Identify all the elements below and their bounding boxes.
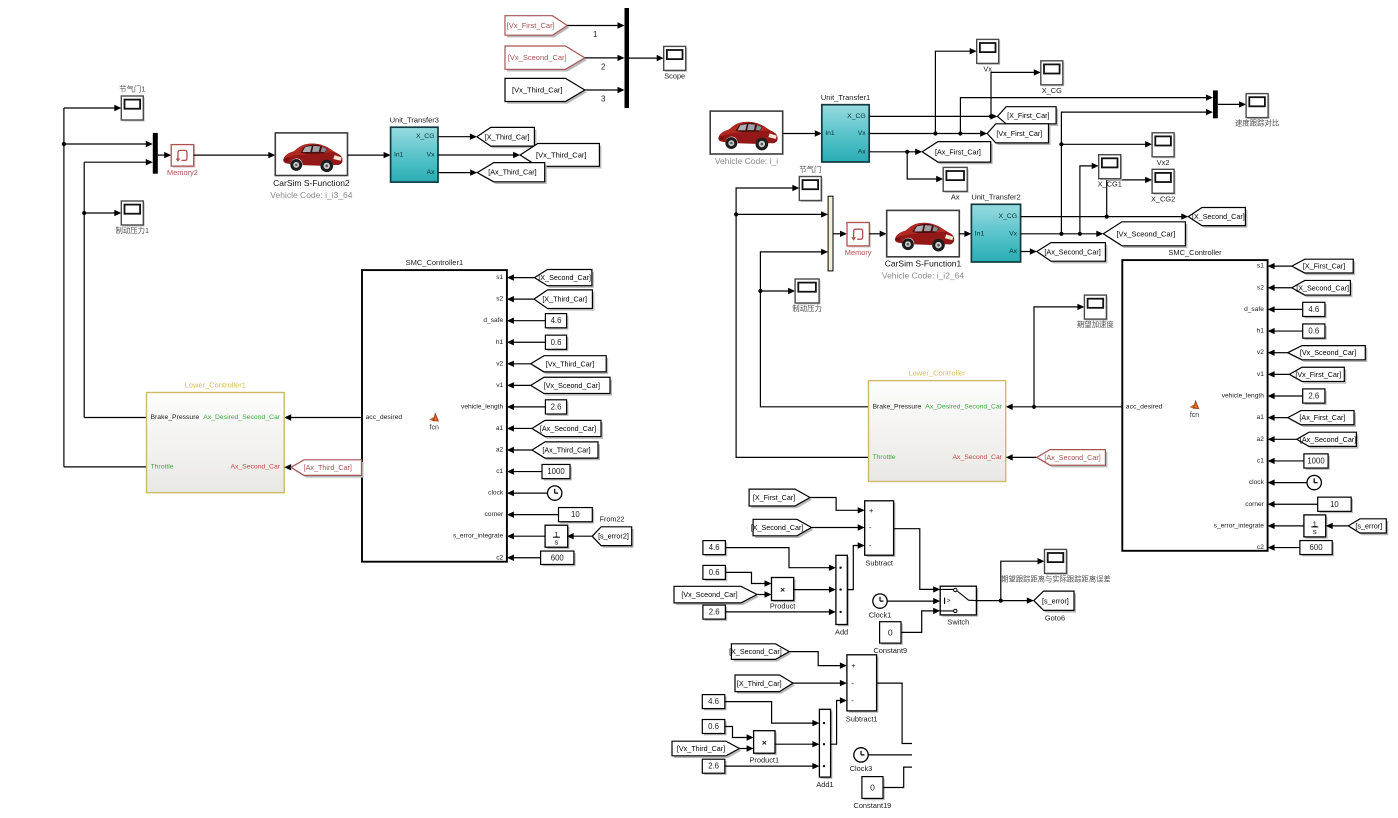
tag From Vx_Sceond_Car red [505,46,587,72]
tag From X_Third_Car s2 [534,290,594,311]
svg-text:600: 600 [1310,543,1324,552]
wire to scope 制动压力 [760,288,795,294]
wire SMC1 c1 in [507,468,542,474]
svg-text:Ax_Desired_Second_Car: Ax_Desired_Second_Car [925,403,1002,410]
wire Memory to CarSim1 [869,231,886,237]
wire Vx_Second to mux3 [1059,109,1213,234]
svg-text:c1: c1 [1257,457,1264,464]
scope Vx [977,39,1001,73]
wire Switch to Goto6 [976,597,1033,603]
mux Mux4 cream [828,196,833,271]
wire X_Second to Subtract [812,524,865,530]
svg-text:3: 3 [601,95,606,104]
tag From Vx_Sceond_Car v2 [1288,346,1368,362]
svg-text:Ax_Desired_Second_Car: Ax_Desired_Second_Car [203,414,280,421]
svg-text:0: 0 [888,627,893,637]
fcn MATLAB icon SMC1 fcn [429,412,439,431]
svg-text:600: 600 [551,553,565,562]
wire SMC a2 in [1268,436,1297,442]
wire Vx_Sceond to mux2 [585,55,625,61]
clock Clock SMC right [1307,475,1321,489]
svg-text:>: > [947,597,951,604]
block SMC_Controller1 [362,258,507,562]
svg-text:c1: c1 [496,468,503,475]
wire UT3 Vx out [438,152,520,158]
svg-text:[X_Second_Car]: [X_Second_Car] [729,647,782,656]
svg-text:a1: a1 [496,425,504,432]
svg-text:SMC_Controller1: SMC_Controller1 [406,258,464,267]
wire SMC1 s1 in [507,274,535,280]
svg-text:X_CG: X_CG [1042,86,1062,95]
tag From X_First_Car btm [749,489,812,508]
block Lower_Controller [869,369,1006,482]
svg-text:v2: v2 [1257,349,1264,356]
scope 速度跟踪对比 [1235,94,1279,128]
constant Constant9 [880,622,903,645]
wire SMC1 v2 in [507,361,531,367]
svg-text:Memory: Memory [845,248,872,257]
wire acc_desired to Lower [1006,404,1123,410]
svg-text:s2: s2 [1257,284,1264,291]
constant vehicle_length 2.6 [545,400,568,416]
svg-text:1: 1 [593,30,598,39]
tag From Ax_Second_Car a1 [532,420,603,438]
wire mux1 to Memory2 [158,152,171,158]
svg-text:Switch: Switch [947,618,969,627]
constant c1 1000 r [1304,454,1330,470]
svg-text:Product: Product [770,602,795,611]
constant c2 600 [541,551,576,566]
svg-text:×: × [762,738,767,748]
svg-text:[Ax_First_Car]: [Ax_First_Car] [1299,413,1345,422]
svg-text:Subtract1: Subtract1 [846,715,878,724]
svg-text:[Ax_Third_Car]: [Ax_Third_Car] [304,463,352,472]
tag From X_Second_Car s1 [535,270,594,288]
svg-text:[Ax_Second_Car]: [Ax_Second_Car] [1300,435,1356,444]
block Lower_Controller1 [147,381,285,493]
svg-text:Vehicle Code: i_i: Vehicle Code: i_i [715,156,778,166]
svg-text:[Vx_Sceond_Car]: [Vx_Sceond_Car] [681,590,737,599]
svg-text:Ax: Ax [951,192,960,201]
tag Goto Ax_Second_Car right [1037,243,1108,264]
svg-text:Vehicle Code: i_i3_64: Vehicle Code: i_i3_64 [270,190,353,200]
tag Goto Vx_Sceond_Car right [1103,222,1187,248]
svg-text:h1: h1 [496,339,504,346]
scope 制动压力 [792,279,822,313]
svg-text:节气门: 节气门 [799,165,821,174]
mux Mux2 scope [625,8,630,108]
svg-text:[Vx_Sceond_Car]: [Vx_Sceond_Car] [508,53,567,62]
wire X_Third to Subtract1 [793,680,847,686]
svg-text:v2: v2 [496,360,503,367]
wire SMC1 vehicle_length in [507,404,546,410]
svg-text:Memory2: Memory2 [167,168,198,177]
wire SMC v1 in [1268,371,1290,377]
constant 2.6 btm2 [702,759,726,775]
svg-text:Vx: Vx [983,64,992,73]
svg-text:Clock3: Clock3 [850,764,873,773]
tag Goto X_First_Car [998,107,1059,126]
tag From Vx_Sceond_Car v1 [531,377,612,395]
block Unit_Transfer3 [390,116,439,183]
svg-text:[Vx_Third_Car]: [Vx_Third_Car] [546,359,594,368]
wire mux3 to speed scope [1218,101,1246,107]
svg-text:节气门1: 节气门1 [119,85,145,94]
constant 4.6 btm2 [702,695,726,711]
svg-text:X_CG: X_CG [416,133,435,140]
constant h1 0.6 [545,335,568,351]
tag From X_Third_Car btm [735,675,795,694]
wire SMC1 s2 in [507,296,534,302]
svg-text:Throttle: Throttle [151,463,174,470]
tag From Vx_Third_Car btm [672,741,741,758]
svg-text:v1: v1 [1257,371,1264,378]
fcn MATLAB icon SMC fcn [1190,400,1200,419]
wire UT3 X_CG out [438,134,477,140]
svg-text:Unit_Transfer3: Unit_Transfer3 [390,116,439,125]
wire SMC d_safe in [1268,306,1303,312]
block Add1 [816,709,833,789]
wire Subtract1 out stub [877,683,912,743]
svg-text:c2: c2 [1257,544,1264,551]
svg-text:[Vx_Sceond_Car]: [Vx_Sceond_Car] [1116,229,1175,238]
wire X_Second to Subtract1 [789,652,847,669]
svg-text:[Vx_Third_Car]: [Vx_Third_Car] [677,744,725,753]
wire to mux1 in2 [84,159,153,165]
constant h1 0.6 r [1303,324,1327,340]
wire Vx_First to mux2 [567,22,624,28]
block CarSim S-Function1 [882,210,965,280]
block vehicle car i_i [710,111,783,166]
svg-text:clock: clock [1249,479,1265,486]
wire SMC c1 in [1268,458,1304,464]
clock Clock1 [869,594,892,619]
wire AxThird to Lower1 [284,464,291,470]
block Subtract [865,501,896,568]
svg-text:s2: s2 [496,296,503,303]
wire acc_desired to Lower1 [284,414,362,420]
wire SMC s_error_integrate in [1268,523,1304,529]
tag From s_error2 [592,527,634,548]
wire SMC1 v1 in [507,382,531,388]
svg-text:[s_error]: [s_error] [1355,521,1382,530]
svg-text:SMC_Controller: SMC_Controller [1168,248,1222,257]
wire UT1 X_CG out [869,113,997,119]
svg-text:×: × [780,585,785,595]
wire mux4 to Memory [833,231,847,237]
clock Clock3 [850,748,873,773]
svg-text:Lower_Controller: Lower_Controller [908,369,966,378]
svg-text:Scope: Scope [664,71,685,80]
svg-text:10: 10 [1330,500,1339,509]
wire X_CG2 branch [1107,177,1152,217]
svg-text:Brake_Pressure: Brake_Pressure [873,403,922,410]
wire Clock3 out stub [868,754,912,756]
svg-text:X_CG: X_CG [998,213,1017,220]
svg-text:[Vx_First_Car]: [Vx_First_Car] [507,21,555,30]
svg-text:[Ax_Third_Car]: [Ax_Third_Car] [542,446,590,455]
wire s_error to integrator [1326,523,1349,529]
block Product [770,578,796,611]
block Add [835,555,849,636]
tag From X_Second_Car s2 [1292,280,1353,297]
wire Constant9 to Switch [901,608,940,633]
scope 期望加速度 [1077,295,1115,329]
tag From Ax_Second_Car red [1037,450,1108,468]
svg-text:d_safe: d_safe [483,317,503,324]
svg-text:0.6: 0.6 [708,722,719,731]
wire SMC1 h1 in [507,339,546,345]
svg-text:Constant19: Constant19 [853,801,891,810]
svg-text:fcn: fcn [430,425,439,432]
svg-text:s1: s1 [1257,263,1264,270]
scope 期望跟踪距离与实际跟踪距离误差 [1045,549,1069,575]
svg-text:In1: In1 [825,130,835,137]
svg-text:h1: h1 [1257,328,1265,335]
block Switch [940,586,978,626]
tag From Vx_Third_Car top [505,78,587,103]
wire Product1 to Add1 [775,741,819,747]
svg-text:[s_error]: [s_error] [1042,596,1069,605]
memory block Memory [845,223,872,257]
memory block Memory2 [167,145,198,178]
wire 4.6 to Add [725,548,836,571]
svg-text:0.6: 0.6 [709,568,720,577]
tag From X_Second_Car btm1 [751,519,814,538]
svg-text:Vx: Vx [1009,230,1018,237]
tag From X_Second_Car btm2 [729,644,791,662]
svg-text:[X_Second_Car]: [X_Second_Car] [1296,283,1349,292]
wire VxSceond to Product [757,591,772,597]
wire X_First to Subtract [810,498,865,514]
svg-text:s: s [1313,527,1317,536]
scope Vx2 [1152,133,1176,167]
svg-text:+: + [851,661,856,670]
wire Clock1 to Switch [887,598,940,604]
wire throttle trunk left [62,108,66,467]
block Subtract1 [846,655,879,724]
svg-text:[Ax_Second_Car]: [Ax_Second_Car] [1044,247,1100,256]
wire CarSim1 to UT2 [959,231,971,237]
wire VxThird to Product1 [739,745,753,751]
svg-text:[Ax_Second_Car]: [Ax_Second_Car] [540,424,596,433]
svg-text:0.6: 0.6 [551,338,562,347]
wire to mux4 in1 [736,211,828,217]
svg-text:期望加速度: 期望加速度 [1077,320,1115,329]
svg-text:Ax_Second_Car: Ax_Second_Car [953,454,1003,461]
wire CarSim2 to UT3 [348,152,391,158]
wire 4.6 to Add1 [725,702,820,727]
wire Product to Add [794,586,836,592]
svg-text:10: 10 [571,510,580,519]
wire Add to Subtract [847,542,864,589]
svg-text:s: s [555,537,559,546]
wire From22 to integrator [567,533,593,539]
wire SMC1 clock in [507,490,548,496]
block SMC_Controller [1122,248,1267,551]
tag Goto Ax_First_Car [922,142,993,165]
constant c1 1000 [542,464,572,480]
wire brake trunk left [82,162,86,417]
tag From Ax_Third_Car red [291,460,364,478]
wire to scope 节气门1 [64,105,121,111]
svg-text:[Vx_Third_Car]: [Vx_Third_Car] [512,85,562,94]
wire Subtract to Switch [894,529,941,593]
svg-text:s1: s1 [496,274,503,281]
svg-text:Add1: Add1 [816,780,833,789]
svg-text:s_error_integrate: s_error_integrate [1214,522,1265,529]
wire UT3 Ax out [438,169,477,175]
tag Goto Vx_Third_Car [520,144,601,169]
mux Mux1 [153,133,158,174]
svg-text:clock: clock [488,490,504,497]
tag Goto X_Second_Car right [1188,208,1247,228]
svg-text:From22: From22 [600,515,625,524]
svg-text:制动压力: 制动压力 [792,304,822,313]
svg-text:Lower_Controller1: Lower_Controller1 [185,381,246,390]
svg-text:[Vx_Sceond_Car]: [Vx_Sceond_Car] [544,381,600,390]
block Unit_Transfer1 [821,93,870,162]
clock Clock SMC1 [548,486,562,500]
integrator 1/s left [545,525,569,549]
wire Vx_Third to mux2 [585,87,625,93]
wire car i_i to UT1 [783,130,822,136]
wire Vx_First to mux3 [960,94,1213,133]
svg-text:Add: Add [835,628,848,637]
block Product1 [750,731,780,765]
svg-text:速度跟踪对比: 速度跟踪对比 [1235,119,1279,128]
svg-text:s_error_integrate: s_error_integrate [453,533,504,540]
svg-text:[Ax_First_Car]: [Ax_First_Car] [935,147,981,156]
wire 2.6 to Add [725,609,836,615]
svg-text:[X_Second_Car]: [X_Second_Car] [751,523,804,532]
wire Vx scope branch [935,48,976,134]
wire UT1 Ax out [869,149,922,155]
svg-text:c2: c2 [496,554,503,561]
tag From Ax_First_Car a1 [1288,411,1356,427]
wire UT2 Vx out [1021,231,1104,237]
svg-text:1000: 1000 [1307,456,1325,465]
svg-text:[s_error2]: [s_error2] [598,532,629,541]
wire AxSecond red to Lower [1006,454,1037,460]
scope Scope [664,46,688,80]
svg-text:a2: a2 [496,447,504,454]
tag From Ax_Second_Car a2 [1297,432,1359,448]
block Unit_Transfer2 [971,193,1020,263]
tag From Ax_Third_Car a2 [532,442,600,460]
svg-text:Constant9: Constant9 [873,646,907,655]
svg-text:Vx: Vx [427,152,436,159]
constant corner 10 [559,508,595,524]
wire 2.6 to Add1 [725,763,820,769]
svg-text:Ax: Ax [858,148,867,155]
svg-text:[X_Third_Car]: [X_Third_Car] [542,295,587,304]
wire SMC clock in [1268,479,1307,485]
tag From Vx_First_Car red [505,16,569,38]
scope Ax [943,167,969,201]
scope 节气门1 [119,85,145,122]
svg-text:CarSim S-Function1: CarSim S-Function1 [885,259,962,269]
constant 0.6 btm1 [703,565,727,581]
mux Mux3 speed compare [1213,90,1218,118]
svg-text:期望跟踪距离与实际跟踪距离误差: 期望跟踪距离与实际跟踪距离误差 [1001,575,1110,584]
wire SMC a1 in [1268,414,1288,420]
wire 0.6 to Product [725,572,771,586]
svg-text:[X_First_Car]: [X_First_Car] [1303,262,1345,271]
wire Throttle trunk right [734,185,869,458]
svg-text:corner: corner [1245,501,1264,508]
svg-text:CarSim S-Function2: CarSim S-Function2 [273,178,350,188]
svg-text:corner: corner [484,511,503,518]
svg-text:[X_Third_Car]: [X_Third_Car] [485,132,530,141]
svg-text:2.6: 2.6 [551,402,562,411]
wire SMC s2 in [1268,285,1292,291]
wire Vx2 branch [1061,141,1152,147]
svg-text:a1: a1 [1257,414,1265,421]
svg-text:4.6: 4.6 [709,543,720,552]
svg-text:acc_desired: acc_desired [1126,403,1163,410]
scope X_CG1 [1098,155,1123,189]
tag From Vx_First_Car v1 [1289,367,1346,383]
wire Constant19 out stub [883,767,912,787]
scope X_CG [1041,61,1065,95]
wire Brake trunk right [758,249,868,407]
wire SMC1 d_safe in [507,318,546,324]
svg-text:[Vx_Third_Car]: [Vx_Third_Car] [536,150,586,159]
svg-text:In1: In1 [975,230,985,237]
svg-text:0.6: 0.6 [1308,327,1319,336]
svg-text:制动压力1: 制动压力1 [115,226,149,235]
svg-text:+: + [869,506,874,515]
svg-text:4.6: 4.6 [708,697,719,706]
wire X_CG1 branch [1080,163,1099,234]
wire SMC vehicle_length in [1268,393,1303,399]
wire error scope branch [1001,558,1045,601]
svg-text:Clock1: Clock1 [869,610,892,619]
svg-text:[Vx_First_Car]: [Vx_First_Car] [1295,370,1341,379]
svg-text:0: 0 [870,783,875,793]
svg-text:vehicle_length: vehicle_length [461,403,503,410]
svg-text:[Vx_First_Car]: [Vx_First_Car] [996,129,1042,138]
svg-text:fcn: fcn [1190,412,1199,419]
wire UT1 Vx out [869,130,987,136]
constant 4.6 btm1 [703,541,727,557]
svg-text:Throttle: Throttle [873,454,896,461]
constant vehicle_length 2.6 r [1303,389,1327,405]
svg-text:vehicle_length: vehicle_length [1222,393,1264,400]
wire 期望加速度 branch [1034,304,1084,407]
svg-text:Vx2: Vx2 [1157,158,1170,167]
svg-text:Vx: Vx [858,130,867,137]
svg-text:[X_Third_Car]: [X_Third_Car] [737,679,782,688]
tag Goto Vx_First_Car [987,124,1050,145]
svg-text:In1: In1 [394,152,404,159]
wire UT2 X_CG out [1021,213,1189,219]
svg-text:X_CG1: X_CG1 [1098,180,1122,189]
wire SMC c2 in [1268,544,1300,550]
svg-text:4.6: 4.6 [1308,305,1319,314]
svg-text:Subtract: Subtract [865,559,893,568]
wire brake port link [84,417,146,419]
wire Add1 to Subtract1 [831,697,847,744]
constant 0.6 btm2 [702,720,726,736]
wire SMC1 s_error_integrate in [507,533,545,539]
svg-text:Ax_Second_Car: Ax_Second_Car [231,463,281,470]
wire X_CG scope branch [991,69,1041,116]
tag From X_First_Car s1 [1292,259,1355,275]
svg-text:[X_Second_Car]: [X_Second_Car] [1192,212,1245,221]
wire SMC corner in [1268,501,1318,507]
